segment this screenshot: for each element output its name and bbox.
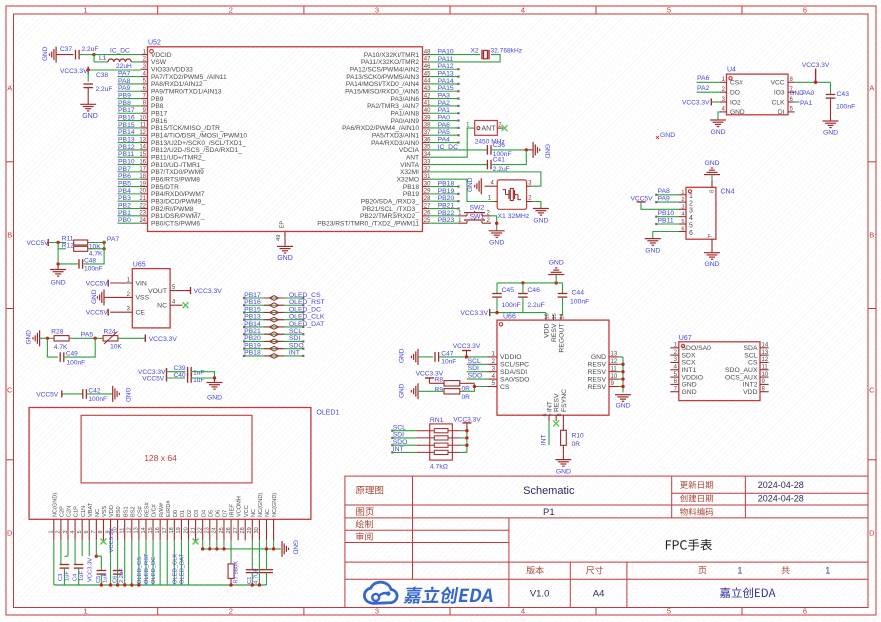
wire C45 column bbox=[496, 283, 498, 294]
svg-text:11: 11 bbox=[120, 528, 126, 534]
capacitor C46 2.2uF bbox=[518, 293, 528, 295]
junction OLED pin 12 bus bbox=[130, 583, 133, 586]
svg-text:RESV: RESV bbox=[551, 323, 558, 342]
U52 pin 37 stub bbox=[423, 134, 430, 136]
svg-text:4.7kΩ: 4.7kΩ bbox=[430, 463, 448, 470]
svg-text:GND: GND bbox=[660, 132, 675, 139]
U67 pin 13 stub bbox=[760, 354, 769, 356]
svg-text:RESV: RESV bbox=[587, 362, 606, 369]
svg-text:PB19: PB19 bbox=[244, 342, 261, 349]
OLED1 pin 4 C1P bbox=[74, 519, 76, 540]
OLED1 pin 30 NC(GND) bbox=[258, 519, 260, 540]
svg-text:DI: DI bbox=[778, 109, 785, 116]
wire ground to VSS bbox=[104, 296, 110, 298]
svg-text:VDD: VDD bbox=[109, 505, 115, 517]
U66 pin 10 stub bbox=[609, 378, 619, 380]
wire net PB4 to U52 pin 20 bbox=[118, 193, 141, 195]
capacitor C48 100nF bbox=[78, 259, 80, 269]
svg-text:GND: GND bbox=[207, 395, 222, 402]
U52 pin 11 stub bbox=[141, 127, 148, 129]
svg-text:10: 10 bbox=[611, 374, 618, 380]
wire net PA7 to U52 pin 4 bbox=[118, 76, 141, 78]
svg-text:PA7/TXD2/PWM5_/AIN11: PA7/TXD2/PWM5_/AIN11 bbox=[151, 74, 227, 81]
svg-text:GND: GND bbox=[91, 289, 98, 304]
U66 pin 5 stub bbox=[488, 386, 498, 388]
svg-text:D/C#: D/C# bbox=[152, 503, 158, 517]
wire net PA9 to U52 pin 6 bbox=[118, 90, 141, 92]
svg-text:PA14/MOSI/TXD0_/AIN4: PA14/MOSI/TXD0_/AIN4 bbox=[346, 81, 420, 88]
svg-text:PA1: PA1 bbox=[438, 107, 451, 114]
svg-text:C1P: C1P bbox=[74, 506, 80, 517]
OLED1 pin 23 D5 bbox=[209, 519, 211, 540]
U67 pin 8 stub bbox=[760, 391, 769, 393]
svg-text:PB1: PB1 bbox=[118, 210, 131, 217]
CN4 pin 3 stub bbox=[679, 208, 686, 210]
svg-text:PA1/AIN8: PA1/AIN8 bbox=[391, 111, 420, 118]
OLED1 pin 29 NC bbox=[251, 519, 253, 540]
svg-text:C2N: C2N bbox=[67, 506, 73, 517]
svg-text:PB18: PB18 bbox=[438, 180, 455, 187]
OLED1 pin 20 D2 bbox=[188, 519, 190, 540]
svg-text:14: 14 bbox=[762, 343, 769, 349]
svg-text:PB3: PB3 bbox=[118, 195, 131, 202]
svg-text:4: 4 bbox=[689, 215, 693, 222]
svg-text:6: 6 bbox=[803, 6, 807, 15]
svg-text:8: 8 bbox=[98, 530, 104, 533]
svg-text:X2: X2 bbox=[471, 47, 479, 54]
U52 pin 4 stub bbox=[141, 76, 148, 78]
svg-text:PB15: PB15 bbox=[244, 306, 261, 313]
junction R28 left bbox=[46, 337, 49, 340]
svg-text:2: 2 bbox=[681, 197, 684, 203]
U52 pin 46 stub bbox=[423, 68, 430, 70]
svg-text:F-: F- bbox=[708, 234, 713, 240]
svg-text:PB17: PB17 bbox=[244, 292, 261, 299]
svg-text:7: 7 bbox=[550, 413, 556, 416]
RN1 element 3 bbox=[434, 443, 448, 447]
svg-text:C43: C43 bbox=[837, 91, 850, 98]
capacitor C49 100nF bbox=[59, 352, 61, 362]
svg-text:GND: GND bbox=[704, 261, 719, 268]
wire net PB10 to U52 pin 16 bbox=[118, 164, 141, 166]
svg-text:C4: C4 bbox=[72, 573, 78, 581]
wire OLED pin 30 column to bus bbox=[258, 540, 260, 585]
wire net PB15 to U52 pin 11 bbox=[118, 127, 141, 129]
capacitor C36 100nF bbox=[486, 145, 488, 155]
wire OLED pin 11 column bbox=[124, 540, 126, 585]
svg-text:2: 2 bbox=[229, 607, 233, 616]
svg-text:PA4: PA4 bbox=[438, 136, 451, 143]
svg-text:18: 18 bbox=[169, 527, 175, 533]
OLED1 pin 14 RES# bbox=[145, 519, 147, 540]
svg-text:2024-04-28: 2024-04-28 bbox=[758, 494, 804, 504]
svg-text:PA2: PA2 bbox=[697, 85, 710, 92]
svg-text:VDCID: VDCID bbox=[151, 52, 172, 59]
svg-text:PB20: PB20 bbox=[244, 335, 261, 342]
U52 pin 34 stub bbox=[423, 156, 430, 158]
svg-text:23: 23 bbox=[205, 527, 211, 533]
svg-text:C40: C40 bbox=[174, 372, 186, 379]
svg-text:PB13: PB13 bbox=[244, 314, 261, 321]
svg-text:SCL/SPC: SCL/SPC bbox=[500, 362, 529, 369]
title label 物料编码 bbox=[680, 508, 713, 516]
U52 pin 3 stub bbox=[141, 68, 148, 70]
wire node down to C48 bbox=[84, 241, 104, 264]
U52 pin 9 stub bbox=[141, 112, 148, 114]
title label 绘制 bbox=[356, 520, 373, 528]
svg-text:VCC: VCC bbox=[244, 505, 250, 517]
svg-text:1: 1 bbox=[84, 607, 88, 616]
svg-text:10nF: 10nF bbox=[441, 359, 456, 366]
svg-text:R10: R10 bbox=[572, 432, 584, 439]
net tie diamond PB19/SDO bbox=[270, 346, 279, 351]
wire net PB3 to U52 pin 21 bbox=[118, 200, 141, 202]
wire OLED pin 12 column bbox=[131, 540, 133, 585]
svg-text:28: 28 bbox=[240, 527, 246, 533]
svg-text:VSW: VSW bbox=[151, 59, 167, 66]
svg-text:RESV: RESV bbox=[587, 384, 606, 391]
svg-text:2: 2 bbox=[689, 201, 693, 208]
svg-text:R9: R9 bbox=[435, 387, 444, 394]
wire net PB11 to U52 pin 15 bbox=[118, 156, 141, 158]
svg-text:C45: C45 bbox=[502, 287, 515, 294]
svg-text:CS#: CS# bbox=[137, 505, 143, 517]
svg-text:24: 24 bbox=[212, 527, 218, 533]
svg-text:11: 11 bbox=[611, 366, 618, 372]
svg-text:PB13/U2D+/SCK0_/SCL/TXD1_: PB13/U2D+/SCK0_/SCL/TXD1_ bbox=[151, 140, 246, 147]
svg-text:GND: GND bbox=[489, 239, 504, 246]
OLED1 pin 31 NC bbox=[266, 519, 268, 540]
svg-text:22uH: 22uH bbox=[116, 63, 132, 70]
svg-text:U65: U65 bbox=[133, 261, 146, 268]
title label 图页 bbox=[356, 507, 374, 515]
U67 pin 11 stub bbox=[760, 369, 769, 371]
ground at U65 VSS bbox=[103, 289, 105, 305]
svg-text:C6: C6 bbox=[112, 576, 118, 583]
svg-text:PA0: PA0 bbox=[802, 90, 815, 97]
svg-text:REGOUT: REGOUT bbox=[558, 324, 565, 353]
svg-text:R/W#: R/W# bbox=[159, 502, 165, 517]
net tie diamond PB20/SDI bbox=[270, 339, 279, 344]
svg-text:PA15/MISO/RXD0_/AIN5: PA15/MISO/RXD0_/AIN5 bbox=[345, 89, 419, 96]
svg-text:GND: GND bbox=[42, 46, 49, 61]
svg-text:2.2uF: 2.2uF bbox=[96, 86, 113, 93]
svg-text:R8: R8 bbox=[435, 376, 444, 383]
svg-text:SDX: SDX bbox=[682, 352, 696, 359]
svg-text:ANT: ANT bbox=[482, 126, 497, 133]
wire VCC5V to C40 bbox=[167, 377, 186, 379]
wire C38 to ground bbox=[87, 88, 89, 105]
no-connect at OLED pin8 bbox=[100, 539, 106, 545]
svg-text:PA5: PA5 bbox=[81, 332, 94, 339]
OLED1 pin 1 NC(GND) bbox=[53, 519, 55, 540]
wire net tie PB19 to SDO bbox=[244, 348, 303, 350]
U4 pin 2 stub bbox=[720, 91, 727, 93]
wire top bus C45/C46 bbox=[497, 282, 563, 284]
svg-text:GND: GND bbox=[591, 354, 606, 361]
svg-text:OLED_CLK: OLED_CLK bbox=[172, 554, 178, 584]
CN4 pin 4 stub bbox=[679, 216, 686, 218]
ground below U4 pin4 bbox=[710, 119, 726, 121]
U52 pin 23 stub bbox=[141, 215, 148, 217]
svg-text:VDD: VDD bbox=[743, 389, 757, 396]
svg-text:PB5: PB5 bbox=[118, 180, 131, 187]
svg-text:D1: D1 bbox=[180, 510, 186, 517]
svg-text:P1: P1 bbox=[543, 507, 555, 518]
svg-text:PB2: PB2 bbox=[118, 202, 131, 209]
junction GND top bbox=[555, 281, 558, 284]
svg-text:PB19: PB19 bbox=[438, 188, 455, 195]
U52 pin 12 stub bbox=[141, 134, 148, 136]
junction R11 left bbox=[56, 241, 59, 244]
VCC3.3V rail wire bbox=[490, 312, 546, 314]
capacitor C2 2.2uF at OLED VCC bbox=[260, 569, 273, 571]
wire OLED pin 32 to ground row bbox=[273, 540, 275, 549]
U65 pin 2 stub bbox=[110, 296, 132, 298]
svg-text:PB7: PB7 bbox=[118, 166, 131, 173]
svg-text:INT: INT bbox=[393, 446, 404, 453]
wire VCC3.3V to pin3 bbox=[88, 69, 141, 71]
U67 pin 6 stub bbox=[670, 383, 679, 385]
wire RN1 commons to VCC3.3V bbox=[460, 430, 467, 432]
svg-text:PB11: PB11 bbox=[118, 151, 134, 158]
OLED1 pin 19 D1 bbox=[180, 519, 182, 540]
svg-text:10: 10 bbox=[762, 372, 769, 378]
wire U66 pin8 to R10 bbox=[562, 421, 564, 430]
svg-text:PB7/TXD0/PWM9: PB7/TXD0/PWM9 bbox=[151, 169, 204, 176]
wire SCL to U66 pin2 bbox=[467, 363, 488, 365]
svg-text:GND: GND bbox=[682, 389, 697, 396]
wire net PB7 to U52 pin 17 bbox=[118, 171, 141, 173]
U52 pin 47 stub bbox=[423, 61, 430, 63]
svg-text:PB2/RI/PWM8_: PB2/RI/PWM8_ bbox=[151, 206, 198, 213]
JLC EDA logo cloud bbox=[364, 582, 397, 603]
wire PB22 to SW2 bbox=[429, 215, 458, 217]
svg-text:PB4: PB4 bbox=[118, 188, 131, 195]
svg-text:2.2uF: 2.2uF bbox=[82, 46, 99, 53]
svg-text:D5: D5 bbox=[208, 510, 214, 517]
svg-text:NC: NC bbox=[95, 509, 101, 517]
CN4 pin 6 stub bbox=[679, 231, 686, 233]
svg-text:PB9: PB9 bbox=[151, 96, 164, 103]
U67 pin 1 stub bbox=[670, 347, 679, 349]
RN1 element 1 bbox=[434, 429, 448, 433]
wire C43 down bbox=[830, 82, 832, 94]
U66 pin 2 stub bbox=[488, 363, 498, 365]
svg-text:SW1: SW1 bbox=[470, 213, 485, 220]
svg-text:100nF: 100nF bbox=[502, 302, 521, 309]
svg-text:PB5/DTR: PB5/DTR bbox=[151, 184, 179, 191]
svg-text:5: 5 bbox=[77, 530, 83, 533]
wire OLED pin 25 to ground row bbox=[223, 540, 225, 549]
svg-text:CE: CE bbox=[136, 310, 146, 317]
OLED1 pin 13 CS# bbox=[138, 519, 140, 540]
wire net tie PB17 to OLED_CS bbox=[244, 297, 303, 299]
U67 pin 5 stub bbox=[670, 376, 679, 378]
svg-text:SDO: SDO bbox=[393, 439, 408, 446]
U52 pin 7 stub bbox=[141, 98, 148, 100]
svg-text:BS2: BS2 bbox=[130, 506, 136, 517]
svg-text:VDD: VDD bbox=[543, 323, 550, 337]
U65 pin 1 stub bbox=[110, 282, 132, 284]
wire GND to C37 bbox=[56, 54, 74, 56]
svg-text:PA13: PA13 bbox=[438, 70, 454, 77]
svg-text:1: 1 bbox=[737, 566, 742, 576]
ground at C37 bbox=[55, 47, 57, 63]
title value 嘉立创EDA bbox=[720, 587, 776, 598]
svg-text:PB6/RTS/PWM8: PB6/RTS/PWM8 bbox=[151, 177, 200, 184]
U67 pin 14 stub bbox=[760, 347, 769, 349]
U66 pin 14 stub bbox=[560, 315, 562, 320]
svg-text:FSYNC: FSYNC bbox=[561, 389, 568, 412]
svg-text:22: 22 bbox=[197, 527, 203, 533]
net tie diamond PB15/OLED_DC bbox=[270, 310, 279, 315]
ground at R28 bbox=[39, 330, 41, 346]
svg-text:PB8: PB8 bbox=[151, 103, 164, 110]
svg-text:27: 27 bbox=[233, 527, 239, 533]
svg-text:RES#: RES# bbox=[145, 501, 151, 517]
rotated power label VCC3.3V at OLED pin6 bbox=[88, 540, 90, 556]
wire R11 right to PA7 node bbox=[88, 242, 104, 244]
svg-text:R7 560K: R7 560K bbox=[234, 561, 240, 584]
wire net PB13 to U52 pin 13 bbox=[118, 142, 141, 144]
svg-text:PB14/TIO/DSR_/MOSI_/PWM10: PB14/TIO/DSR_/MOSI_/PWM10 bbox=[151, 133, 247, 140]
svg-text:SDI: SDI bbox=[289, 335, 300, 342]
svg-text:SDA: SDA bbox=[744, 345, 758, 352]
svg-text:SCX: SCX bbox=[682, 360, 696, 367]
U66 pin 15 stub bbox=[553, 315, 555, 320]
svg-text:PA6: PA6 bbox=[697, 75, 710, 82]
wire SDO to U66 pin4 bbox=[467, 378, 488, 380]
svg-text:6: 6 bbox=[681, 227, 684, 233]
svg-text:PA5: PA5 bbox=[438, 129, 451, 136]
ground below R10 bbox=[555, 459, 571, 461]
svg-text:7: 7 bbox=[91, 530, 97, 533]
U4 pin 7 stub bbox=[788, 91, 795, 93]
wire OLED pin 9 column bbox=[110, 540, 112, 585]
svg-text:PA9: PA9 bbox=[658, 196, 671, 203]
svg-text:SCL: SCL bbox=[744, 352, 757, 359]
svg-text:PA0/AIN9: PA0/AIN9 bbox=[391, 118, 420, 125]
svg-text:PA8/RXD1/AIN12: PA8/RXD1/AIN12 bbox=[151, 81, 203, 88]
svg-text:PB13: PB13 bbox=[118, 136, 135, 143]
svg-text:29: 29 bbox=[247, 527, 253, 533]
capacitor C1 4.7uF at OLED VCOMH bbox=[251, 540, 253, 569]
svg-text:C3: C3 bbox=[58, 574, 64, 581]
svg-text:PA8: PA8 bbox=[118, 78, 131, 85]
svg-text:D2: D2 bbox=[187, 510, 193, 517]
OLED1 pin 15 D/C# bbox=[152, 519, 154, 540]
svg-text:PB0/CTS/PWM6: PB0/CTS/PWM6 bbox=[151, 220, 200, 227]
power flag VCC3.3V at R24 bbox=[144, 335, 146, 343]
svg-text:PA10/X32KI/TMR1: PA10/X32KI/TMR1 bbox=[364, 52, 420, 59]
svg-text:SCL: SCL bbox=[289, 328, 302, 335]
svg-text:3: 3 bbox=[375, 6, 379, 15]
node IC_DC junction bbox=[92, 53, 95, 56]
wire net SDO to RN1 bbox=[392, 444, 416, 446]
wire net tie PB20 to SDI bbox=[244, 340, 303, 342]
wire R12 left bbox=[58, 243, 66, 249]
no-connect at ANT pin2 bbox=[497, 127, 503, 129]
U52 pin 25 stub bbox=[423, 222, 430, 224]
svg-text:NC(GND): NC(GND) bbox=[258, 493, 264, 517]
svg-text:X32MI: X32MI bbox=[400, 169, 419, 176]
svg-text:1: 1 bbox=[825, 566, 830, 576]
svg-text:GND: GND bbox=[710, 129, 725, 136]
U52 pin 19 stub bbox=[141, 186, 148, 188]
junction OLED pin 9 bus bbox=[109, 583, 112, 586]
U66 pin 7 stub bbox=[555, 415, 557, 421]
svg-text:4: 4 bbox=[521, 6, 525, 15]
svg-text:VCC3.3V: VCC3.3V bbox=[461, 310, 489, 317]
svg-text:GND: GND bbox=[467, 177, 474, 192]
wire net tie PB18 to INT bbox=[244, 355, 303, 357]
svg-text:PB16: PB16 bbox=[151, 118, 167, 125]
svg-text:30: 30 bbox=[254, 527, 260, 533]
wire C47 to U66 pin1 bbox=[439, 356, 488, 358]
U4 pin 4 stub bbox=[720, 111, 727, 113]
OLED1 pin 25 D7 bbox=[223, 519, 225, 540]
svg-text:C37: C37 bbox=[60, 46, 72, 53]
svg-text:2.2uF: 2.2uF bbox=[119, 568, 125, 583]
svg-text:EP: EP bbox=[279, 221, 285, 229]
OLED1 pin 9 VDD bbox=[110, 519, 112, 540]
svg-text:INT: INT bbox=[289, 350, 300, 357]
svg-text:D0: D0 bbox=[173, 510, 179, 517]
svg-text:OLED_CS: OLED_CS bbox=[289, 292, 321, 299]
resistor R10 0R bbox=[561, 430, 567, 445]
svg-text:IC_DC: IC_DC bbox=[110, 47, 130, 54]
svg-text:GND: GND bbox=[26, 330, 33, 345]
svg-text:32.768kHz: 32.768kHz bbox=[491, 47, 523, 54]
OLED1 pin 18 D0 bbox=[173, 519, 175, 540]
capacitor C5 1uF at OLED pin7 bbox=[95, 540, 97, 556]
wire net tie PB13 to OLED_CLK bbox=[244, 319, 303, 321]
svg-text:C1: C1 bbox=[247, 577, 253, 584]
wire U66 right pins to ground column bbox=[619, 356, 624, 358]
wire L1 to U52 pin2 bbox=[131, 61, 141, 63]
wire R8/R9 to U66 CS bbox=[460, 387, 488, 392]
wire net PB2 to U52 pin 22 bbox=[118, 208, 141, 210]
svg-text:GND: GND bbox=[533, 217, 548, 224]
svg-text:PB4/RXD0/PWM7: PB4/RXD0/PWM7 bbox=[151, 191, 205, 198]
U52 pin 27 stub bbox=[423, 208, 430, 210]
junction PA7 node bbox=[102, 241, 105, 244]
OLED1 pin 3 C2N bbox=[67, 519, 69, 540]
wire OLED pin 20 column bbox=[188, 540, 190, 585]
svg-text:PA1: PA1 bbox=[800, 100, 813, 107]
svg-text:1: 1 bbox=[84, 6, 88, 15]
wire U4 pin6 to PA1 bbox=[795, 101, 800, 103]
title value FPC手表 bbox=[666, 539, 712, 550]
wire U52 pin 37 to net PA5 bbox=[429, 134, 458, 136]
title label 审阅 bbox=[356, 532, 372, 540]
svg-text:VBAT: VBAT bbox=[88, 502, 94, 517]
CN4 pin 2 stub bbox=[679, 201, 686, 203]
svg-text:25: 25 bbox=[219, 527, 225, 533]
wire C40 to ground node bbox=[191, 377, 214, 379]
svg-text:NC: NC bbox=[265, 509, 271, 517]
U66 pin 11 stub bbox=[609, 371, 619, 373]
junction C39/C40 ground bbox=[213, 376, 216, 379]
title block grid lines bbox=[672, 492, 868, 494]
U52 pin 35 stub bbox=[423, 149, 430, 151]
antenna ANT 2450MHz bbox=[475, 121, 498, 136]
svg-text:SDO_AUX: SDO_AUX bbox=[725, 367, 758, 374]
svg-text:C5: C5 bbox=[96, 576, 102, 583]
U67 pin 12 stub bbox=[760, 361, 769, 363]
svg-text:100nF: 100nF bbox=[84, 266, 103, 273]
